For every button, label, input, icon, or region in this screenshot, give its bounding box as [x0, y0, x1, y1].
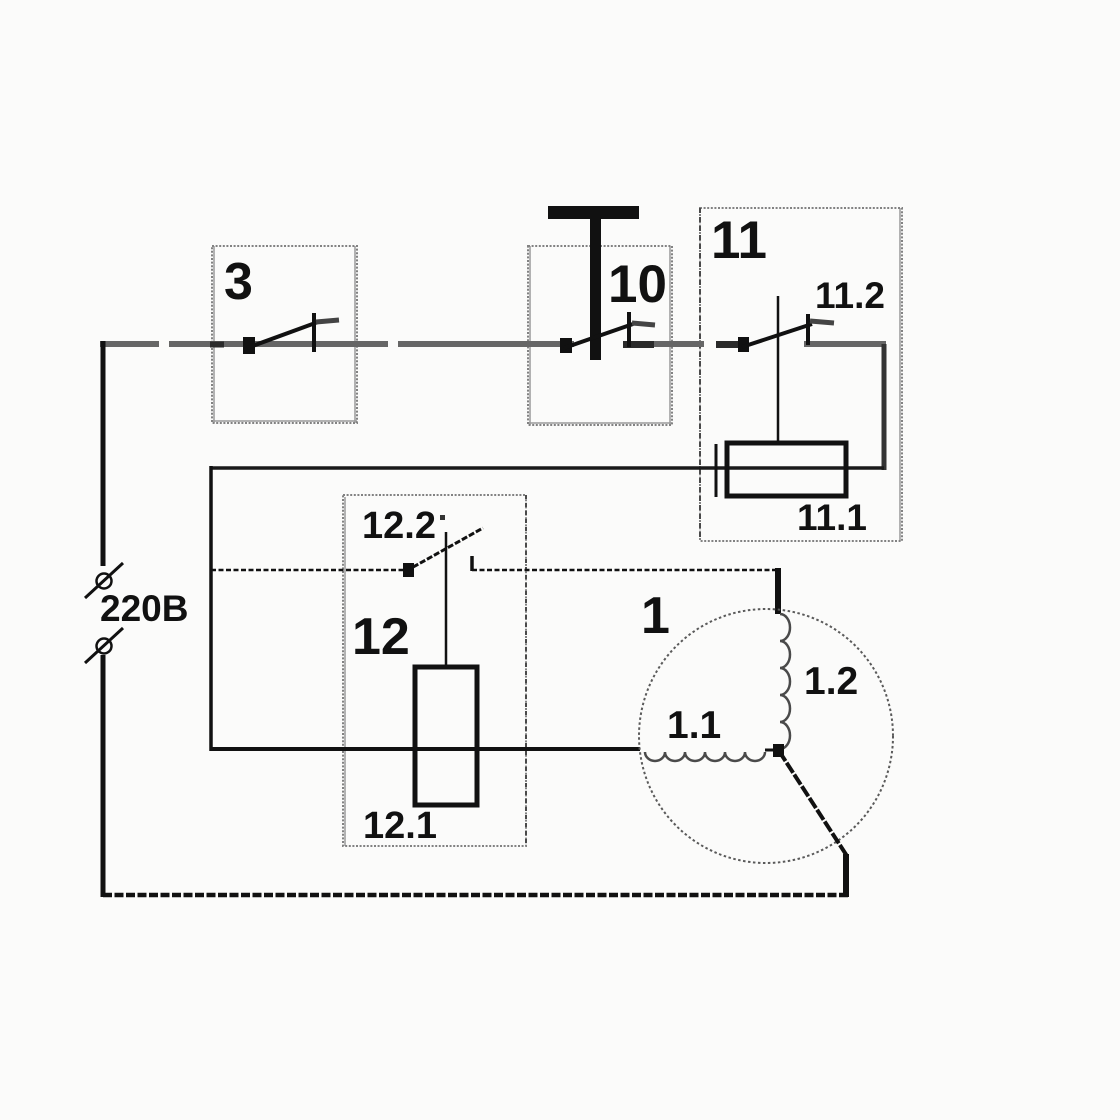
wire: bottom return rail — [103, 893, 848, 898]
svg-text:12.1: 12.1 — [363, 805, 437, 847]
svg-text:12: 12 — [352, 608, 410, 666]
wire: drop into motor top — [775, 568, 781, 614]
wire: left vertical from bottom terminal to bottom rail — [101, 655, 106, 897]
switch 12.2 — [403, 528, 483, 577]
wire: right drop from rail to coil 11.1 — [882, 344, 887, 470]
svg-text:220В: 220В — [100, 588, 188, 629]
svg-text:10: 10 — [608, 255, 667, 314]
coil 11.1 side tick — [715, 444, 718, 497]
wire: bus to switch 12.2 — [211, 569, 404, 572]
wire: node bus from coil 11.1 left to left bus — [210, 466, 884, 470]
winding 1.1 — [645, 752, 765, 761]
node: motor star point — [773, 744, 784, 757]
wire: motor to bottom rail diagonal — [779, 751, 847, 856]
svg-text:12.2: 12.2 — [362, 505, 436, 547]
thermostat bulb T of 10 — [548, 206, 639, 360]
wire: left vertical from rail to top terminal — [101, 341, 106, 566]
box 3 — [212, 246, 357, 423]
box 12 — [343, 495, 526, 846]
svg-text:1.1: 1.1 — [667, 704, 721, 747]
stray dot — [440, 515, 445, 520]
wire: star point short lead — [765, 749, 779, 752]
box 11 — [700, 208, 902, 541]
svg-text:11: 11 — [711, 211, 767, 270]
switch 11.2 — [738, 314, 834, 352]
switch 10 — [560, 312, 655, 353]
wire: switch 12.2 to motor winding 1.2 top — [472, 569, 779, 572]
box 10 — [528, 246, 672, 425]
box 12 right edge accent — [525, 495, 527, 846]
terminal: upper 220V connector — [85, 563, 123, 598]
svg-text:11.1: 11.1 — [797, 497, 867, 538]
wire: bus through coil 12.1 to motor winding 1.1 — [211, 747, 640, 751]
svg-text:1: 1 — [641, 587, 670, 645]
motor 1 stator circle — [639, 609, 893, 863]
svg-text:11.2: 11.2 — [815, 275, 885, 316]
winding 1.2 — [780, 614, 790, 749]
box 11 left edge accent — [699, 208, 701, 541]
svg-text:3: 3 — [224, 253, 253, 311]
svg-text:1.2: 1.2 — [804, 660, 858, 703]
box edge accents — [212, 208, 900, 846]
wire: link from switch 12.2 down to coil 12.1 — [445, 532, 448, 668]
switch 3 — [243, 313, 339, 354]
terminal: lower 220V connector — [85, 628, 123, 663]
wire: main top rail 220V feed — [100, 341, 886, 347]
wire: corner drop — [843, 854, 849, 897]
rail dark patches — [210, 341, 740, 348]
relay coil 11.1 — [727, 443, 846, 496]
wire: left bus vertical — [209, 466, 213, 751]
relay coil 12.1 — [415, 667, 477, 805]
wire: link from contact 11.2 down to coil 11.1 — [777, 296, 780, 443]
